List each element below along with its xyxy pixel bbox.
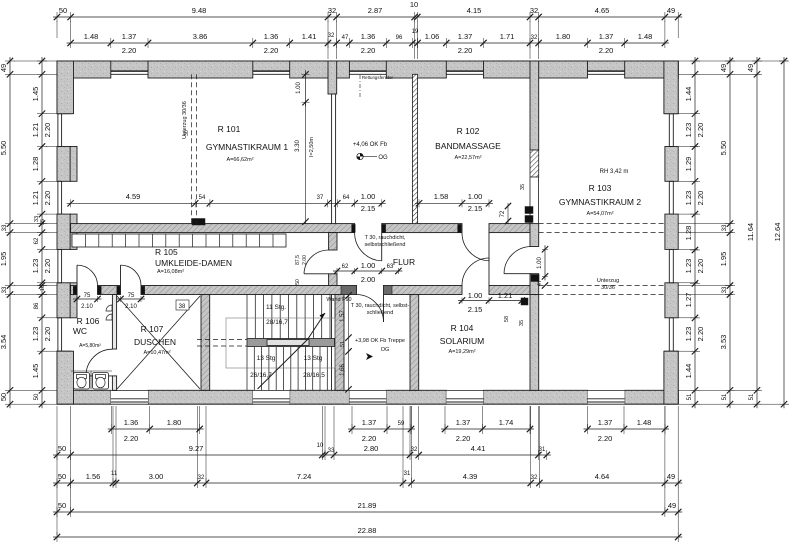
svg-text:2.20: 2.20 (361, 46, 376, 55)
svg-text:32: 32 (328, 6, 336, 15)
svg-text:37: 37 (317, 195, 324, 201)
svg-text:2.20: 2.20 (458, 46, 473, 55)
svg-text:50: 50 (58, 444, 66, 453)
svg-text:1.37: 1.37 (122, 32, 137, 41)
svg-text:28/16,5: 28/16,5 (303, 372, 325, 379)
svg-text:1.58: 1.58 (434, 192, 449, 201)
beam Unterzug R101 (191, 74, 193, 223)
svg-text:WC: WC (73, 326, 87, 336)
svg-text:R 104: R 104 (451, 323, 474, 333)
svg-text:75: 75 (84, 293, 91, 299)
svg-text:1.74: 1.74 (499, 418, 514, 427)
svg-text:2.20: 2.20 (599, 46, 614, 55)
svg-text:OG: OG (381, 347, 390, 353)
WC stall partition (90, 371, 92, 389)
dashed corridor walls across R103 (539, 224, 665, 295)
svg-text:1.00: 1.00 (361, 261, 376, 270)
svg-text:50: 50 (295, 279, 301, 285)
svg-text:R 102: R 102 (457, 126, 480, 136)
svg-text:1.44: 1.44 (684, 364, 693, 379)
svg-text:32: 32 (531, 35, 538, 41)
partition R101 (332, 94, 336, 224)
svg-text:3.54: 3.54 (0, 335, 8, 350)
svg-text:A=66,62m²: A=66,62m² (226, 157, 253, 163)
svg-text:13 Stg: 13 Stg (304, 355, 323, 362)
svg-text:1.37: 1.37 (599, 32, 614, 41)
svg-text:1.37: 1.37 (598, 418, 613, 427)
wall WC-Duschen (112, 295, 116, 391)
stair dashed landing lines (197, 340, 247, 347)
svg-text:1.00: 1.00 (296, 82, 302, 94)
exterior wall right piers (665, 61, 678, 404)
wall vestibule-solarium (410, 295, 419, 391)
corner block top-left (57, 61, 74, 114)
svg-text:A=54,07m²: A=54,07m² (586, 211, 613, 217)
wall R105-FLUR (329, 233, 337, 286)
svg-text:Rettungsfenster: Rettungsfenster (362, 75, 394, 80)
svg-text:2.00: 2.00 (302, 255, 308, 265)
dimension R105 door (295, 255, 308, 285)
svg-text:2.20: 2.20 (696, 191, 705, 206)
svg-text:35: 35 (40, 219, 46, 225)
svg-text:50: 50 (0, 393, 8, 401)
svg-text:5.50: 5.50 (0, 141, 8, 156)
svg-text:1.36: 1.36 (124, 418, 139, 427)
svg-text:38: 38 (179, 304, 186, 310)
svg-text:86: 86 (34, 302, 40, 309)
svg-text:R 101: R 101 (218, 124, 241, 134)
svg-text:31: 31 (539, 447, 546, 453)
svg-text:1.21: 1.21 (31, 123, 40, 138)
svg-text:32: 32 (198, 475, 205, 481)
svg-text:SOLARIUM: SOLARIUM (440, 336, 484, 346)
svg-text:33: 33 (722, 286, 728, 293)
svg-text:1.45: 1.45 (31, 87, 40, 102)
svg-text:50: 50 (58, 501, 66, 510)
wall R102-R103 and FLUR right (530, 61, 539, 390)
svg-text:Unterzug: Unterzug (597, 278, 619, 284)
svg-text:1.21: 1.21 (31, 191, 40, 206)
svg-text:1.29: 1.29 (684, 157, 693, 172)
svg-text:4.41: 4.41 (471, 444, 486, 453)
svg-text:1.56: 1.56 (86, 472, 101, 481)
svg-text:50: 50 (34, 393, 40, 400)
svg-text:4.59: 4.59 (126, 192, 141, 201)
svg-text:9.48: 9.48 (192, 6, 207, 15)
svg-text:19: 19 (412, 29, 419, 35)
svg-text:UMKLEIDE-DAMEN: UMKLEIDE-DAMEN (155, 258, 232, 268)
svg-text:35: 35 (520, 184, 526, 190)
dimension column right mid (719, 57, 735, 408)
door R103-FLUR (504, 247, 532, 274)
dimension R102 door (415, 192, 493, 213)
svg-text:49: 49 (668, 501, 676, 510)
svg-text:1.80: 1.80 (556, 32, 571, 41)
svg-text:1.45: 1.45 (31, 364, 40, 379)
svg-text:11 Stg.: 11 Stg. (266, 304, 286, 311)
svg-text:54: 54 (199, 195, 206, 201)
stair side dims (340, 292, 352, 392)
svg-text:R 106: R 106 (77, 316, 100, 326)
extension lines right (678, 61, 788, 404)
bottom wall windows (111, 390, 625, 404)
svg-text:47: 47 (342, 35, 349, 41)
exterior wall bottom piers (57, 390, 678, 404)
door post FLUR right (531, 275, 539, 282)
svg-text:2.20: 2.20 (264, 46, 279, 55)
svg-text:32: 32 (530, 6, 538, 15)
svg-text:1.28: 1.28 (684, 226, 693, 241)
svg-text:1.71: 1.71 (500, 32, 515, 41)
svg-text:1.00: 1.00 (468, 192, 483, 201)
svg-text:2.20: 2.20 (43, 259, 52, 274)
svg-text:2.87: 2.87 (368, 6, 383, 15)
exterior wall bottom band (57, 394, 678, 404)
svg-text:30/36: 30/36 (601, 285, 615, 291)
dimension WC doors (73, 293, 145, 310)
svg-text:1,66: 1,66 (340, 364, 346, 376)
svg-text:1.23: 1.23 (684, 259, 693, 274)
svg-text:2.20: 2.20 (43, 191, 52, 206)
svg-text:96: 96 (396, 35, 403, 41)
svg-text:2.15: 2.15 (361, 204, 376, 213)
dimension column right detail (684, 57, 705, 408)
dimension partition R101 (295, 70, 315, 225)
svg-text:T 30, rauchdicht,: T 30, rauchdicht, (365, 235, 406, 241)
dimension Solarium (458, 291, 526, 326)
svg-text:49: 49 (0, 64, 8, 72)
wall R101-R102 hatched (412, 74, 417, 223)
svg-text:I=2,50m: I=2,50m (309, 137, 315, 157)
extension lines left (14, 61, 57, 404)
svg-text:22.88: 22.88 (358, 526, 377, 535)
door R105-WC (77, 265, 98, 285)
extension lines bottom (57, 406, 678, 535)
svg-text:2.00: 2.00 (361, 275, 376, 284)
svg-text:1.80: 1.80 (167, 418, 182, 427)
svg-text:RH 3,42 m: RH 3,42 m (600, 169, 629, 175)
svg-text:1.28: 1.28 (31, 157, 40, 172)
svg-text:2.20: 2.20 (696, 327, 705, 342)
svg-text:1.23: 1.23 (31, 259, 40, 274)
svg-text:35: 35 (519, 320, 525, 326)
svg-text:1.23: 1.23 (684, 191, 693, 206)
svg-text:33: 33 (2, 286, 8, 293)
door FLUR-vestibule (357, 295, 384, 323)
svg-text:11.64: 11.64 (746, 223, 755, 241)
svg-text:2.10: 2.10 (125, 304, 137, 310)
toilet 1 (74, 373, 90, 390)
svg-text:1.23: 1.23 (31, 327, 40, 342)
svg-text:49: 49 (719, 64, 728, 72)
dimension row bottom windows (108, 418, 669, 443)
svg-text:1.48: 1.48 (84, 32, 99, 41)
svg-text:3.00: 3.00 (149, 472, 164, 481)
svg-text:1.95: 1.95 (0, 252, 8, 267)
dimension row bottom 22.88 (53, 526, 682, 542)
door posts corridor (73, 224, 461, 294)
column at beam end (192, 219, 205, 226)
stair landing bar (247, 339, 335, 347)
svg-text:+4,06 OK Fb: +4,06 OK Fb (353, 142, 388, 148)
svg-text:1.37: 1.37 (362, 418, 377, 427)
svg-text:T 30, rauchdicht, selbst-: T 30, rauchdicht, selbst- (351, 303, 410, 309)
svg-text:5.50: 5.50 (719, 141, 728, 156)
cross Duschen (117, 296, 200, 389)
svg-text:63: 63 (387, 264, 394, 270)
svg-text:1.41: 1.41 (302, 32, 317, 41)
svg-text:FLUR: FLUR (393, 257, 415, 267)
svg-text:Wand F90: Wand F90 (326, 297, 351, 303)
svg-text:50: 50 (58, 472, 66, 481)
svg-text:2.20: 2.20 (43, 123, 52, 138)
svg-text:49: 49 (667, 472, 675, 481)
dimension 38 (176, 300, 189, 310)
svg-text:62: 62 (342, 264, 349, 270)
svg-text:32: 32 (411, 447, 418, 453)
svg-text:1.37: 1.37 (456, 418, 471, 427)
left wall pilasters (70, 147, 77, 318)
wall stair-vestibule F90 (332, 295, 345, 391)
dimension column left inner (31, 57, 52, 408)
door post Solarium (521, 298, 528, 305)
corridor top wall (71, 224, 530, 233)
svg-text:3.86: 3.86 (193, 32, 208, 41)
stair opening outline (226, 318, 335, 368)
svg-text:2.15: 2.15 (468, 204, 483, 213)
svg-text:1.95: 1.95 (719, 252, 728, 267)
svg-text:1.21: 1.21 (498, 291, 513, 300)
exterior wall top piers (57, 61, 678, 78)
dimension row top inner (67, 29, 669, 48)
svg-text:A=5,80m²: A=5,80m² (79, 343, 101, 349)
lockers R105 (72, 234, 286, 247)
svg-text:49: 49 (746, 64, 755, 72)
svg-text:BANDMASSAGE: BANDMASSAGE (435, 141, 501, 151)
svg-text:1.06: 1.06 (425, 32, 440, 41)
svg-text:4.64: 4.64 (595, 472, 610, 481)
svg-text:2.20: 2.20 (456, 434, 471, 443)
svg-text:58: 58 (504, 316, 510, 322)
svg-text:50: 50 (59, 6, 67, 15)
svg-text:1.37: 1.37 (458, 32, 473, 41)
svg-text:51: 51 (749, 393, 755, 400)
svg-text:1.23: 1.23 (684, 123, 693, 138)
svg-text:10: 10 (40, 285, 46, 291)
svg-text:28/16,7: 28/16,7 (266, 319, 288, 326)
svg-text:9.27: 9.27 (189, 444, 204, 453)
svg-text:4.39: 4.39 (463, 472, 478, 481)
svg-text:75: 75 (128, 293, 135, 299)
svg-text:2.20: 2.20 (598, 434, 613, 443)
stair walk line (258, 313, 326, 389)
corner block bottom-left (57, 351, 74, 404)
svg-text:4.15: 4.15 (467, 6, 482, 15)
corridor bottom wall (71, 286, 530, 295)
dimension 72 R102 (500, 203, 511, 224)
svg-text:4.65: 4.65 (595, 6, 610, 15)
door Solarium-FLUR (462, 258, 489, 286)
door R102-FLUR (462, 233, 489, 261)
dimension 35 R102 (520, 184, 526, 190)
svg-text:33: 33 (328, 448, 335, 454)
svg-text:2.80: 2.80 (364, 444, 379, 453)
svg-text:A=16,08m²: A=16,08m² (157, 269, 184, 275)
svg-text:2.15: 2.15 (468, 305, 483, 314)
svg-text:1.23: 1.23 (684, 327, 693, 342)
svg-text:1.27: 1.27 (684, 293, 693, 308)
svg-text:13 Stg: 13 Stg (257, 355, 276, 362)
svg-text:GYMNASTIKRAUM 2: GYMNASTIKRAUM 2 (559, 197, 641, 207)
svg-text:62: 62 (34, 237, 40, 244)
wall Duschen-stair (201, 295, 210, 391)
door FLUR-R105 (304, 250, 329, 274)
dimension FLUR right door (537, 245, 548, 288)
svg-text:72: 72 (500, 210, 506, 217)
svg-text:32: 32 (328, 33, 335, 39)
dimension row top outer (53, 0, 682, 22)
svg-text:59: 59 (398, 421, 405, 427)
svg-text:+3,98 OK Fb Treppe: +3,98 OK Fb Treppe (355, 338, 405, 344)
svg-text:GYMNASTIKRAUM 1: GYMNASTIKRAUM 1 (206, 142, 288, 152)
pier top R101 (328, 61, 337, 94)
dimension column left outer (0, 57, 15, 408)
svg-text:30: 30 (184, 130, 190, 136)
svg-text:1.00: 1.00 (537, 257, 543, 269)
dimension column right 12.64 (773, 57, 789, 408)
svg-text:11: 11 (111, 471, 118, 477)
svg-text:51: 51 (722, 393, 728, 400)
svg-text:A=19,29m²: A=19,29m² (448, 349, 475, 355)
svg-text:1.00: 1.00 (468, 291, 483, 300)
dark F90 wall pieces (341, 286, 357, 295)
extension lines top (57, 21, 678, 59)
svg-text:21.89: 21.89 (358, 501, 377, 510)
svg-text:10: 10 (317, 443, 324, 449)
left wall windows (58, 114, 62, 352)
svg-text:1.44: 1.44 (684, 87, 693, 102)
svg-text:R 103: R 103 (589, 183, 612, 193)
svg-text:OG: OG (378, 155, 388, 161)
svg-text:1.48: 1.48 (637, 418, 652, 427)
dimension row bottom 21.89 (53, 501, 682, 517)
svg-text:R 105: R 105 (155, 247, 178, 257)
svg-text:2.20: 2.20 (362, 434, 377, 443)
svg-text:3.30: 3.30 (295, 140, 301, 152)
right wall windows (669, 114, 673, 352)
top wall windows (111, 71, 625, 75)
svg-text:A=22,57m²: A=22,57m² (454, 155, 481, 161)
svg-text:2.20: 2.20 (696, 259, 705, 274)
svg-text:10: 10 (410, 0, 418, 9)
toilet 2 (93, 373, 109, 390)
door posts R102-R103 (525, 207, 533, 223)
svg-text:1,57: 1,57 (340, 310, 346, 322)
door WC stalls (86, 349, 112, 376)
svg-text:31: 31 (404, 471, 411, 477)
svg-text:2.20: 2.20 (43, 327, 52, 342)
corner block top-right (664, 61, 678, 114)
svg-text:51: 51 (687, 393, 693, 400)
svg-text:87,5: 87,5 (295, 255, 301, 265)
svg-text:33: 33 (2, 224, 8, 231)
dimension R101 doors (67, 192, 386, 213)
svg-text:selbstschließend: selbstschließend (365, 242, 406, 248)
svg-text:12.64: 12.64 (773, 223, 782, 242)
svg-text:3.53: 3.53 (719, 335, 728, 350)
dimension column right 11.64 (746, 57, 762, 408)
exterior wall top band (57, 61, 678, 71)
svg-text:1.36: 1.36 (361, 32, 376, 41)
svg-text:51: 51 (340, 341, 346, 347)
corner block bottom-right (664, 351, 678, 404)
dimension row bottom inner (53, 471, 682, 488)
svg-text:R 107: R 107 (141, 324, 164, 334)
svg-text:47: 47 (537, 280, 543, 286)
svg-text:7.24: 7.24 (297, 472, 312, 481)
svg-text:33: 33 (722, 224, 728, 231)
wash basins (106, 305, 112, 311)
svg-text:2.20: 2.20 (124, 434, 139, 443)
dimension row bottom rooms (53, 443, 551, 460)
svg-text:1.48: 1.48 (638, 32, 653, 41)
dimension FLUR (333, 261, 402, 284)
svg-text:2.10: 2.10 (81, 304, 93, 310)
svg-text:32: 32 (531, 475, 538, 481)
svg-text:1.36: 1.36 (264, 32, 279, 41)
svg-text:49: 49 (667, 6, 675, 15)
door R101-FLUR (355, 233, 382, 261)
svg-text:2.20: 2.20 (122, 46, 137, 55)
svg-text:1.00: 1.00 (361, 192, 376, 201)
svg-text:schließend: schließend (367, 310, 394, 316)
svg-text:64: 64 (343, 195, 350, 201)
svg-text:2.20: 2.20 (696, 123, 705, 138)
exterior wall left piers (57, 61, 71, 404)
svg-text:26/16,7: 26/16,7 (250, 372, 272, 379)
door R105-Duschen (121, 265, 142, 285)
stair treads (247, 295, 330, 391)
